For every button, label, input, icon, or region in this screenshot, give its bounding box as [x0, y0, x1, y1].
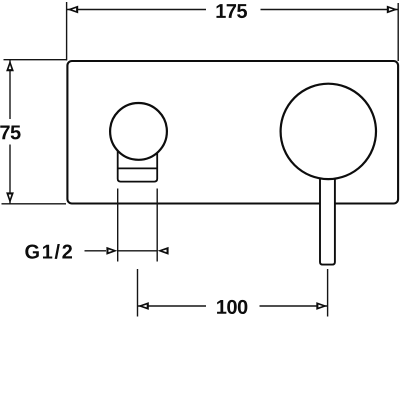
dimension G1/2: right arrowhead (points left at outlet edge)	[158, 247, 169, 255]
dimension 100: right arrowhead	[316, 302, 327, 310]
dimension 100: line right segment	[260, 305, 328, 307]
dimension 175: right extension line	[397, 3, 399, 61]
dimension 75: value label	[0, 125, 20, 139]
dimension 100: right extension line (handle centre)	[327, 269, 329, 317]
dimension G1/2: left extension line	[117, 189, 119, 262]
dimension 100: left extension line (spout centre)	[137, 269, 139, 317]
dimension G1/2: label	[25, 244, 72, 259]
dimension 100: left arrowhead	[138, 302, 149, 310]
dimension 75: bottom arrowhead	[6, 192, 14, 203]
spout circle	[110, 103, 167, 160]
dimension 175: value label	[216, 4, 247, 18]
handle circle	[281, 84, 376, 179]
dimension G1/2: leader line	[85, 250, 107, 252]
dimension 175: left arrowhead	[67, 6, 78, 14]
dimension 175: right arrowhead	[387, 6, 398, 14]
dimension G1/2: line between extension lines	[118, 250, 158, 252]
dimension 175: left extension line	[66, 2, 68, 61]
dimension 75: top arrowhead	[6, 60, 14, 71]
dimension 75: line top segment	[9, 60, 11, 119]
dimension 100: line left segment	[138, 305, 206, 307]
dimension G1/2: right extension line	[156, 189, 158, 262]
wall plate (rounded rectangle body)	[67, 61, 398, 204]
dimension 75: bottom extension line	[2, 203, 67, 205]
dimension 175: line left segment	[67, 9, 206, 11]
dimension 175: line right segment	[261, 9, 399, 11]
spout outlet block below spout circle	[118, 144, 158, 182]
aerator ring line on spout outlet	[118, 167, 158, 169]
dimension 75: top extension line	[4, 59, 67, 61]
dimension 100: value label	[217, 300, 247, 314]
dimension 75: line bottom segment	[9, 145, 11, 204]
dimension G1/2: left arrowhead (points right at outlet edge)	[106, 247, 117, 255]
lever handle bar	[320, 168, 335, 265]
